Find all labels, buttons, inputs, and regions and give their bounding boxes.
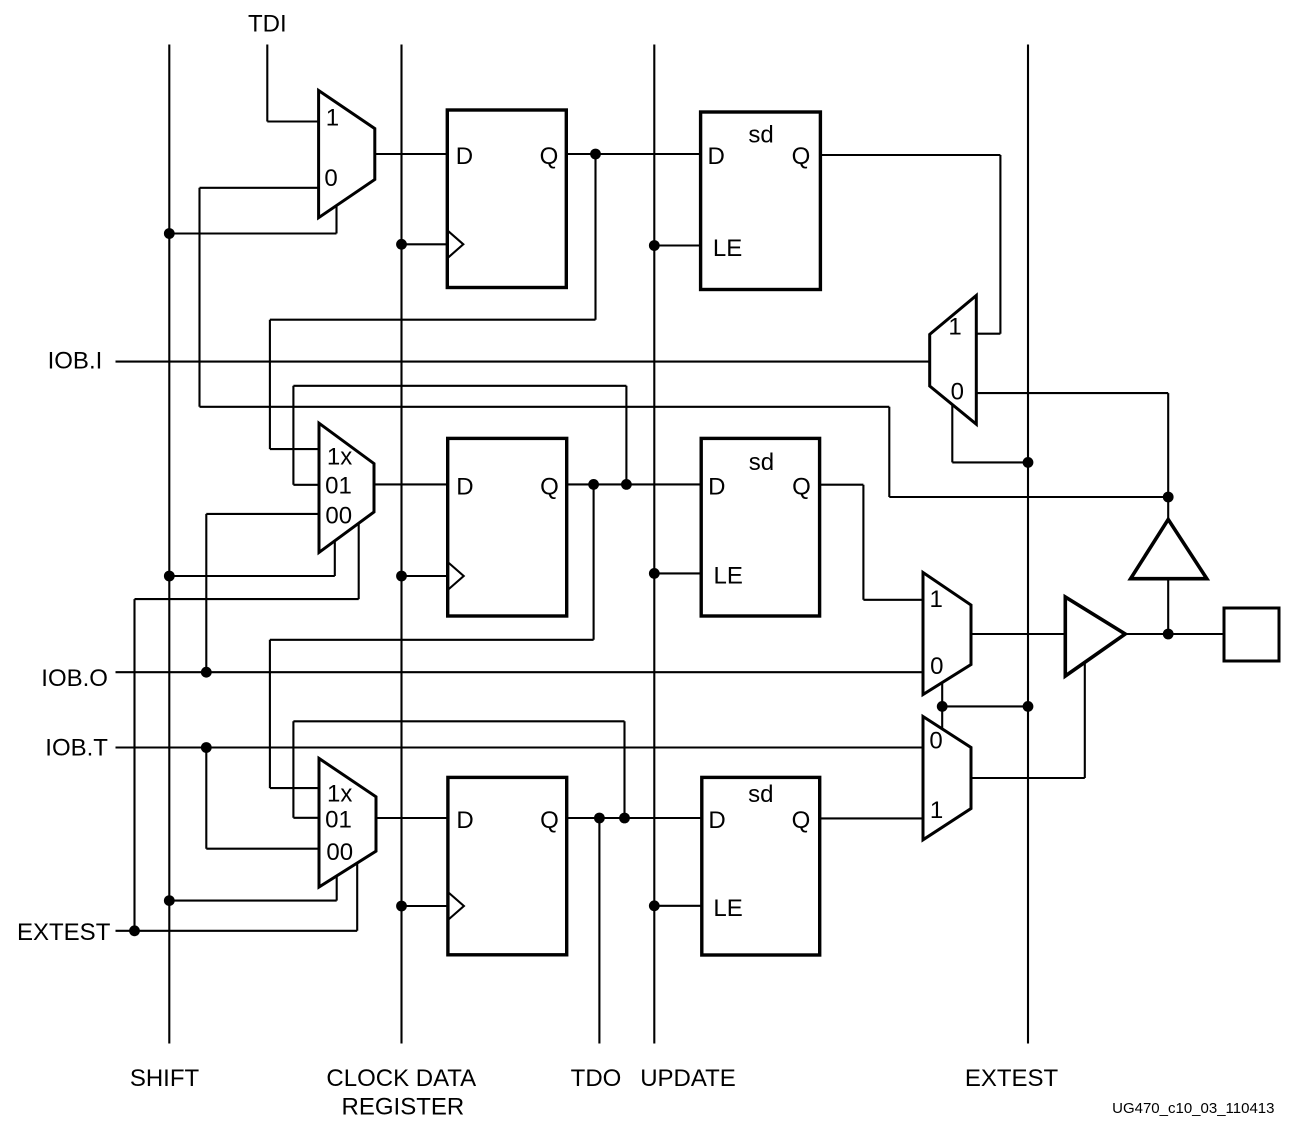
svg-text:TDO: TDO (571, 1065, 622, 1092)
wire SHIFT vertical bus (168, 45, 170, 1044)
junction UPDATE / L1 LE (649, 240, 660, 251)
latch L3 (702, 777, 820, 955)
wire IOB.T to mux M5 input 00 (205, 748, 207, 849)
wire EXTEST to mux M3 select (951, 405, 953, 463)
svg-text:00: 00 (326, 839, 353, 866)
junction M4/M6 select node (937, 701, 948, 712)
wire UPDATE to latch L3 LE (654, 905, 702, 907)
mux M4 (923, 573, 971, 695)
svg-text:1x: 1x (327, 781, 352, 808)
wire mux M1 input 0 from input buffer (pad feedback) (200, 187, 319, 189)
svg-text:0: 0 (930, 653, 943, 680)
wire mux M2 output to FF2 D (374, 483, 448, 485)
wire TDI to mux M1 input 1 (266, 45, 268, 122)
wire FF2 Q shift path down to mux M5 input 1x (593, 484, 595, 639)
junction IOB.T / M5 00 tap (201, 742, 212, 753)
junction SHIFT / M2 select (164, 571, 175, 582)
svg-text:sd: sd (749, 449, 774, 476)
wire IOB.T to mux M6 input 0 (116, 746, 924, 748)
svg-text:0: 0 (929, 728, 942, 755)
wire mux M2 input 01 self feedback from FF2 Q (625, 386, 627, 485)
svg-text:D: D (456, 807, 473, 834)
input buffer B2 (1131, 519, 1207, 578)
svg-text:TDI: TDI (248, 11, 287, 38)
wire SHIFT to mux M2 select (169, 575, 334, 577)
svg-text:EXTEST: EXTEST (17, 919, 111, 946)
svg-text:D: D (456, 143, 473, 170)
mux M6 (923, 717, 971, 840)
svg-text:UG470_c10_03_110413: UG470_c10_03_110413 (1112, 1100, 1274, 1117)
svg-text:IOB.O: IOB.O (41, 665, 108, 692)
svg-text:Q: Q (792, 473, 811, 500)
wire output buffer to pad (1125, 633, 1224, 635)
flip-flop FF1 (447, 110, 566, 288)
flip-flop FF3 (448, 777, 567, 954)
flip-flop FF2 (448, 438, 567, 616)
junction EXTEST line (129, 925, 140, 936)
svg-text:UPDATE: UPDATE (640, 1065, 736, 1092)
latch L1 (701, 112, 821, 290)
svg-text:sd: sd (748, 121, 773, 148)
svg-text:IOB.T: IOB.T (45, 734, 108, 761)
svg-text:0: 0 (951, 379, 964, 406)
junction UPDATE / L3 LE (649, 900, 660, 911)
svg-text:IOB.I: IOB.I (48, 348, 103, 375)
wire EXTEST to mux M4 and mux M6 selects (941, 683, 943, 730)
junction FF3 Q TDO node (594, 813, 605, 824)
svg-text:SHIFT: SHIFT (130, 1065, 200, 1092)
wire CLOCK DATA REGISTER vertical bus (400, 45, 402, 1044)
svg-text:CLOCK DATA: CLOCK DATA (326, 1065, 476, 1092)
svg-text:0: 0 (324, 165, 337, 192)
junction FF3 Q feedback node (619, 813, 630, 824)
junction CDR / FF2 clock (396, 571, 407, 582)
mux M5 (319, 758, 376, 887)
svg-text:1: 1 (326, 104, 339, 131)
wire UPDATE vertical bus (653, 45, 655, 1044)
wire EXTEST vertical bus (1027, 45, 1029, 1044)
mux M2 (319, 423, 374, 552)
wire IOB.O to mux M2 input 00 (206, 513, 319, 515)
wire FF3 Q to latch L3 D (567, 817, 702, 819)
svg-text:1x: 1x (327, 443, 352, 470)
junction IOB.O / M2 00 tap (201, 667, 212, 678)
junction UPDATE / L2 LE (649, 568, 660, 579)
wire EXTEST to mux M2 select 2 (133, 599, 135, 931)
svg-text:1: 1 (948, 314, 961, 341)
wire mux M5 output to FF3 D (376, 817, 448, 819)
mux M3 (930, 296, 977, 425)
output buffer B1 (1065, 597, 1125, 676)
junction SHIFT / M1 select (164, 228, 175, 239)
wire IOB.I from mux M3 output (116, 361, 930, 363)
svg-text:Q: Q (540, 143, 559, 170)
svg-text:D: D (456, 473, 473, 500)
wire FF1 Q shift path down to mux M2 input 1x (594, 154, 596, 320)
svg-text:01: 01 (325, 807, 352, 834)
svg-text:D: D (708, 807, 725, 834)
svg-text:D: D (708, 473, 725, 500)
latch L2 (701, 438, 819, 616)
svg-text:Q: Q (792, 143, 811, 170)
wire mux M1 output to FF1 D (375, 153, 448, 155)
wire SHIFT to mux M1 select (169, 232, 336, 234)
junction FF2 Q feedback node (621, 479, 632, 490)
wire CLOCK DATA REGISTER to FF1 clock (402, 243, 448, 245)
junction SHIFT / M5 select (164, 895, 175, 906)
mux M1 (319, 91, 375, 218)
wire IOB.O to mux M4 input 0 (116, 671, 924, 673)
svg-text:Q: Q (540, 807, 559, 834)
wire mux M4 output to output buffer (971, 633, 1065, 635)
svg-text:01: 01 (325, 473, 352, 500)
junction FF1 Q node (590, 149, 601, 160)
wire mux M6 output to output buffer tristate control (971, 777, 1085, 779)
wire latch L1 Q to mux M3 input 1 (820, 154, 1000, 156)
wire mux M5 input 01 self feedback from FF3 Q (623, 721, 625, 818)
wire mux M3 input 0 from input buffer (976, 392, 1168, 394)
junction EXTEST / select (1023, 701, 1034, 712)
junction CDR / FF3 clock (396, 901, 407, 912)
wire FF2 Q to latch L2 D (567, 483, 702, 485)
wire UPDATE to latch L2 LE (654, 572, 701, 574)
junction CDR / FF1 clock (396, 239, 407, 250)
wire TDO vertical (598, 818, 600, 1044)
junction input buffer output (1163, 492, 1174, 503)
pad P1 (1224, 608, 1279, 661)
wire latch L3 Q to mux M6 input 1 (820, 817, 923, 819)
wire UPDATE to latch L1 LE (654, 244, 700, 246)
wire latch L2 Q to mux M4 input 1 (820, 484, 864, 486)
svg-text:1: 1 (930, 586, 943, 613)
svg-text:LE: LE (713, 235, 742, 262)
svg-text:D: D (708, 143, 725, 170)
wire EXTEST label line to mux M5 select 2 (116, 930, 358, 932)
svg-text:sd: sd (748, 781, 773, 808)
svg-text:00: 00 (325, 502, 352, 529)
svg-text:REGISTER: REGISTER (342, 1094, 465, 1121)
junction EXTEST / M3 select (1023, 457, 1034, 468)
svg-text:Q: Q (792, 807, 811, 834)
svg-text:LE: LE (714, 563, 743, 590)
svg-text:Q: Q (540, 473, 559, 500)
wire FF1 Q to latch L1 D (566, 153, 700, 155)
wire CLOCK DATA REGISTER to FF2 clock (402, 575, 448, 577)
svg-text:EXTEST: EXTEST (965, 1065, 1059, 1092)
junction pad node (1163, 629, 1174, 640)
svg-text:1: 1 (930, 797, 943, 824)
wire pad to input buffer (1167, 579, 1169, 634)
junction FF2 Q shift node (588, 479, 599, 490)
wire input buffer output node (1167, 497, 1169, 519)
wire CLOCK DATA REGISTER to FF3 clock (402, 905, 448, 907)
wire SHIFT to mux M5 select (169, 900, 336, 902)
svg-text:LE: LE (713, 895, 742, 922)
